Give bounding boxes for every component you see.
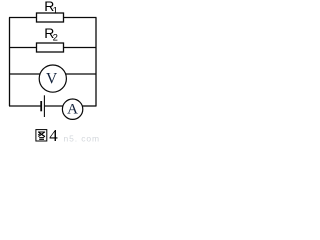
svg-text:V: V xyxy=(46,71,58,88)
svg-text:A: A xyxy=(67,102,78,118)
svg-text:4: 4 xyxy=(49,126,58,143)
svg-text:n5. com: n5. com xyxy=(64,134,101,144)
svg-text:2: 2 xyxy=(53,32,58,43)
svg-text:1: 1 xyxy=(53,5,58,16)
